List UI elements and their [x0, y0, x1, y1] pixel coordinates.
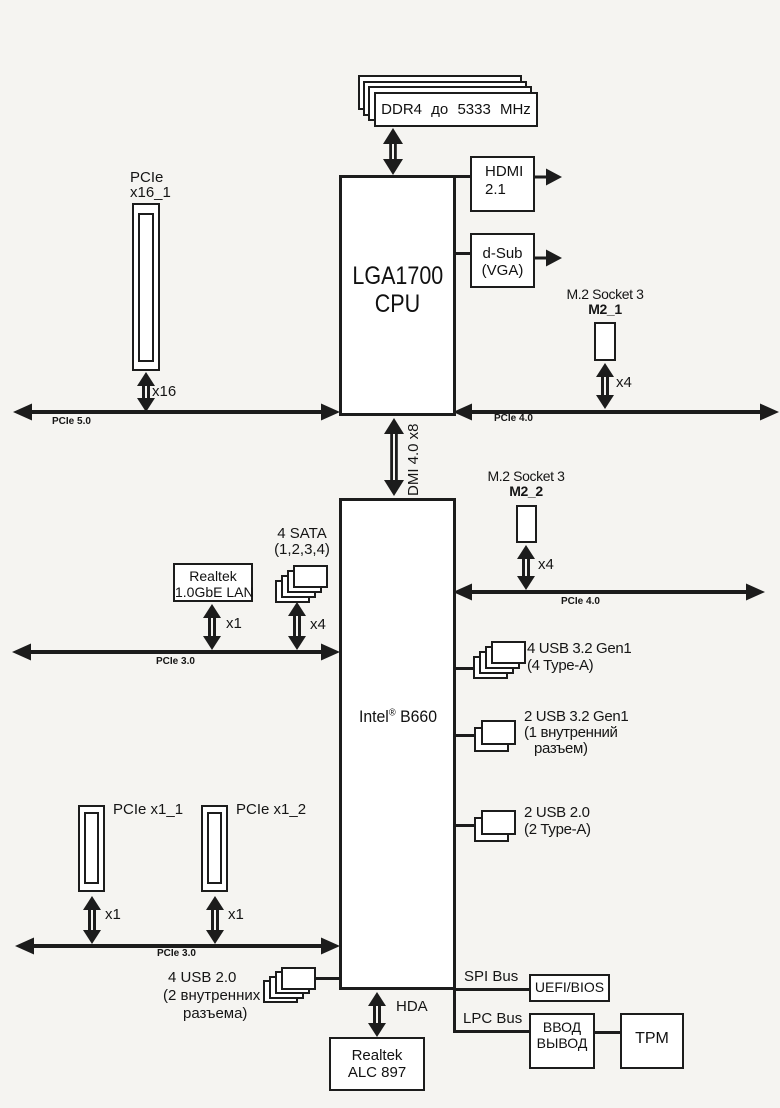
- 2 USB 2.0 Type-A label: [524, 804, 591, 838]
- audio codec box Realtek ALC 897: [329, 1037, 425, 1091]
- PCIe x1_2 slot outer: [201, 805, 228, 892]
- 2 USB 2.0 stack front box: [481, 810, 516, 835]
- arrow LAN x1 to bus: [201, 604, 223, 650]
- USB 2.0 internal stack back box 3: [275, 971, 310, 994]
- wire CPU to HDMI: [456, 175, 470, 178]
- wire LPC bus to IO box: [456, 1030, 529, 1033]
- arrow M2_1 to bus: [594, 363, 616, 409]
- PCIe x1_1 slot outer: [78, 805, 105, 892]
- 4 USB 3.2 Gen1 label: [527, 640, 631, 674]
- UEFI/BIOS box: [529, 974, 610, 1002]
- arrow x16 slot to bus: [135, 372, 157, 412]
- wire CPU to d-Sub: [456, 252, 470, 255]
- arrow M2_2 to bus: [515, 545, 537, 590]
- PCIe 5.0 bus label: [52, 416, 91, 427]
- arrow HDMI output: [535, 168, 563, 186]
- SATA stack front box: [293, 565, 328, 588]
- bus PCIe 4.0 upper: [453, 403, 779, 421]
- M.2 M2_2 box: [516, 505, 537, 543]
- bus PCIe 3.0 upper: [12, 643, 340, 661]
- wire B660 corner down to LPC bus: [453, 988, 456, 1033]
- SATA stack back box 2: [281, 575, 316, 598]
- CPU box LGA1700: [339, 175, 456, 416]
- bus PCIe 3.0 lower: [15, 937, 340, 955]
- arrow DDR4 to CPU (bidirectional): [382, 128, 404, 175]
- 4 SATA label: [262, 526, 342, 558]
- x1 value label LAN: [226, 615, 242, 632]
- 2 USB 3.2 stack back box: [474, 727, 509, 752]
- PCIe 4.0 upper bus label: [494, 413, 533, 424]
- TPM box: [620, 1013, 684, 1069]
- wire SPI bus B660 to UEFI/BIOS: [456, 988, 529, 991]
- x4 value label M2_2: [538, 556, 554, 573]
- USB 2.0 internal stack front box: [281, 967, 316, 990]
- 4 USB 3.2 stack back box 2: [479, 651, 514, 674]
- wire USB2 stack to B660: [316, 977, 339, 980]
- PCIe x1_2 slot inner: [207, 812, 222, 884]
- wire B660 to 2 USB 2.0 stack: [456, 824, 475, 827]
- x1 value label slot2: [228, 906, 244, 923]
- USB 2.0 internal stack back box 1: [263, 980, 298, 1003]
- 2 USB 2.0 stack back box: [474, 817, 509, 842]
- HDMI 2.1 box: [470, 156, 535, 212]
- arrow DMI CPU to B660: [383, 418, 405, 496]
- arrow HDA B660 to audio codec: [366, 992, 388, 1037]
- 4 USB 3.2 stack back box 1: [473, 656, 508, 679]
- PCIe x16_1 slot outer: [132, 203, 160, 371]
- DDR4 DIMM stack back box 2: [363, 81, 527, 116]
- M.2 M2_1 box: [594, 322, 616, 361]
- arrow SATA x4 to bus: [286, 602, 308, 650]
- x1 value label slot1: [105, 906, 121, 923]
- SATA stack back box 1: [275, 580, 310, 603]
- DDR4 DIMM front box with value label: [374, 92, 538, 127]
- arrow x1_1 to bus: [81, 896, 103, 944]
- DDR4 DIMM stack back box 3: [368, 86, 532, 121]
- SATA stack back box 3: [287, 570, 322, 593]
- HDA label: [396, 998, 428, 1015]
- LPC Bus label: [463, 1010, 522, 1027]
- arrow x1_2 to bus: [204, 896, 226, 944]
- USB 2.0 internal stack back box 2: [269, 976, 304, 999]
- DDR4 DIMM stack back box 1: [358, 75, 522, 110]
- PCIe 3.0 lower bus label: [157, 948, 196, 959]
- PCIe 4.0 lower bus label: [561, 596, 600, 607]
- 4 USB 3.2 stack back box 3: [485, 646, 520, 669]
- PCIe 3.0 upper bus label: [156, 656, 195, 667]
- arrow d-Sub output: [535, 249, 563, 267]
- IO box ВВОД ВЫВОД: [529, 1013, 595, 1069]
- DMI 4.0 x8 label (rotated): [405, 420, 422, 496]
- M.2 Socket 3 M2_2 label: [481, 469, 571, 499]
- PCIe x16_1 slot label: [130, 170, 171, 200]
- d-Sub (VGA) box: [470, 233, 535, 288]
- bus PCIe 4.0 lower: [453, 583, 765, 601]
- chipset box Intel B660: [339, 498, 456, 990]
- Realtek LAN box: [173, 563, 253, 602]
- 2 USB 3.2 stack front box: [481, 720, 516, 745]
- wire B660 to 2 USB 3.2 stack: [456, 734, 475, 737]
- SPI Bus label: [464, 968, 518, 985]
- M.2 Socket 3 M2_1 label: [560, 287, 650, 317]
- x4 value label SATA: [310, 616, 326, 633]
- 2 USB 3.2 Gen1 label: [524, 709, 628, 757]
- bus PCIe 5.0: [13, 403, 340, 421]
- PCIe x1_1 slot inner: [84, 812, 99, 884]
- wire IO box to TPM: [595, 1031, 620, 1034]
- x16 value label: [152, 383, 176, 400]
- 4 USB 3.2 stack front box: [491, 641, 526, 664]
- PCIe x16_1 slot inner: [138, 213, 154, 362]
- wire B660 to 4 USB 3.2 stack: [456, 667, 475, 670]
- PCIe x1_1 slot label: [113, 801, 183, 818]
- x4 value label M2_1: [616, 374, 632, 391]
- PCIe x1_2 slot label: [236, 801, 306, 818]
- 4 USB 2.0 internal label: [163, 969, 260, 1023]
